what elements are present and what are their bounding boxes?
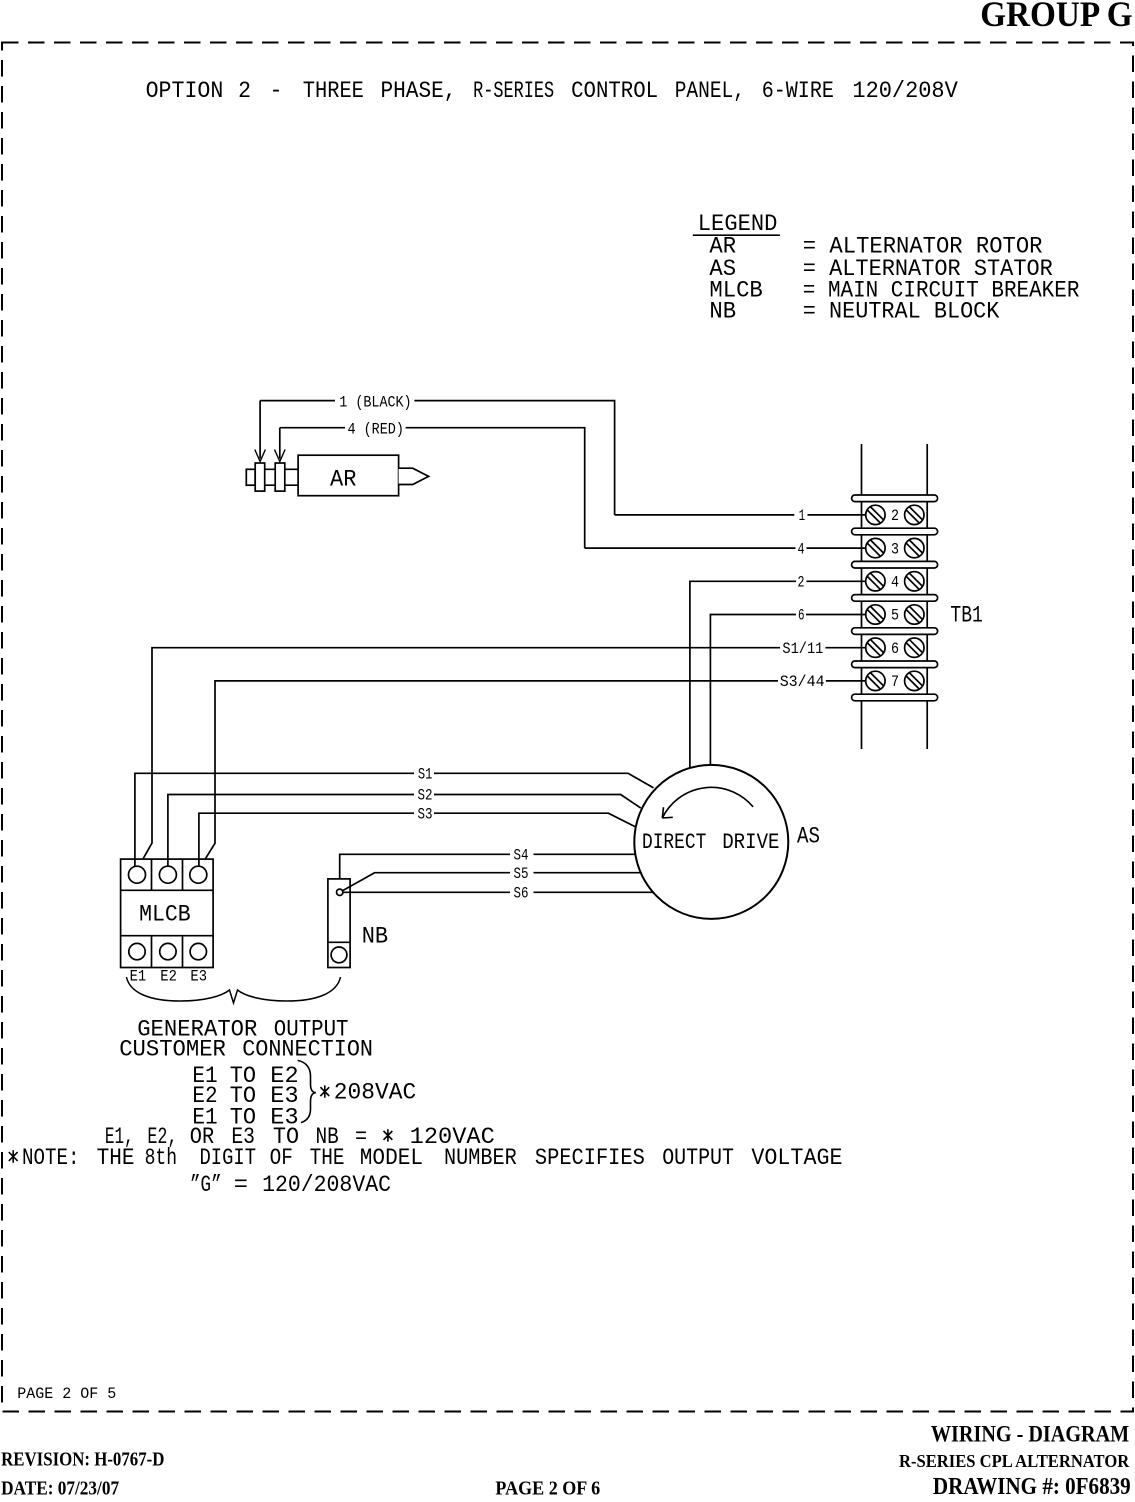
svg-text:CONNECTION: CONNECTION [242, 1036, 373, 1062]
svg-text:5: 5 [891, 607, 899, 625]
MLCB line terminal 3 [190, 866, 207, 883]
svg-text:S3/44: S3/44 [780, 673, 825, 691]
NB node terminal [337, 889, 343, 895]
svg-text:6: 6 [798, 607, 805, 625]
svg-text:120/208VAC: 120/208VAC [262, 1172, 391, 1198]
TB1 terminal 4 left screw [866, 572, 885, 591]
svg-text:4 (RED): 4 (RED) [348, 420, 404, 438]
NB body box [328, 879, 350, 968]
TB1 separator bar 6 [852, 661, 938, 668]
wire 6: TB1 terminal 5 to stator [710, 607, 865, 765]
svg-text:OF: OF [270, 1145, 293, 1171]
brace 208VAC [298, 1060, 417, 1122]
svg-text:DRIVE: DRIVE [722, 829, 779, 855]
AR shaft to body [285, 469, 298, 485]
svg-text:THREE: THREE [303, 78, 364, 104]
TB1 terminal 2 left screw [866, 505, 885, 524]
svg-text:8th: 8th [145, 1145, 177, 1171]
svg-text:S5: S5 [514, 865, 529, 883]
svg-text:4: 4 [891, 574, 899, 592]
wire S1/11: TB1 terminal 6 to MLCB terminal 1 [139, 640, 866, 867]
svg-text:6: 6 [891, 640, 899, 658]
svg-text:= NEUTRAL BLOCK: = NEUTRAL BLOCK [803, 299, 1000, 325]
svg-text:OUTPUT: OUTPUT [662, 1145, 734, 1171]
svg-text:MODEL: MODEL [360, 1145, 423, 1171]
svg-text:PAGE 2 OF 5: PAGE 2 OF 5 [17, 1385, 116, 1403]
svg-text:DIRECT: DIRECT [642, 829, 706, 855]
AR slip ring 1 [255, 463, 265, 491]
svg-text:E3: E3 [190, 968, 207, 986]
svg-text:PAGE 2 OF 6: PAGE 2 OF 6 [495, 1478, 600, 1497]
MLCB row dividers [121, 890, 214, 935]
footer titles [1, 1421, 1131, 1500]
wire S4: NB to stator [340, 847, 636, 879]
wire 2: TB1 terminal 4 to stator [690, 574, 866, 768]
TB1 separator bar 4 [852, 595, 938, 602]
svg-text:GROUP G: GROUP G [980, 0, 1132, 34]
arrowhead at ring 1 [255, 450, 266, 462]
svg-text:=: = [234, 1172, 248, 1198]
connection table E1/E2/E3 [192, 1063, 298, 1131]
wire 1 drop to ring 1 [259, 401, 261, 459]
AR body [298, 455, 399, 496]
TB1 terminal 3 right screw [905, 538, 924, 557]
svg-text:WIRING - DIAGRAM: WIRING - DIAGRAM [931, 1421, 1130, 1446]
generator output label [119, 1017, 373, 1063]
AR slip ring 2 [275, 463, 285, 491]
svg-text:TB1: TB1 [950, 602, 982, 628]
svg-text:NB: NB [362, 923, 388, 949]
wire S1: MLCB terminal 1 to stator [135, 765, 654, 866]
TB1 separator bar 5 [852, 628, 938, 635]
brace: generator output customer connection [126, 977, 340, 1003]
MLCB line terminal 2 [159, 866, 176, 883]
svg-text:1 (BLACK): 1 (BLACK) [339, 393, 411, 411]
TB1 terminal 5 left screw [866, 605, 885, 624]
MLCB line terminal 1 [129, 866, 146, 883]
legend [693, 211, 1080, 325]
TB1 separator bar 2 [852, 528, 938, 535]
AS stator circle [634, 765, 788, 919]
svg-text:CONTROL: CONTROL [571, 78, 658, 104]
MLCB pole dividers [152, 859, 183, 967]
svg-text:AS: AS [797, 824, 820, 850]
alternator stator AS: DIRECT DRIVE [634, 765, 820, 919]
note line 120VAC [105, 1124, 495, 1150]
NB lower terminal [331, 947, 347, 963]
TB1 terminal 3 left screw [866, 538, 885, 557]
wire segment 4 to TB1 [585, 547, 866, 549]
svg-text:1: 1 [799, 507, 806, 525]
svg-text:DRAWING #: 0F6839: DRAWING #: 0F6839 [933, 1474, 1131, 1497]
svg-text:PHASE,: PHASE, [381, 78, 457, 104]
svg-text:7: 7 [891, 673, 899, 691]
svg-text:REVISION: H-0767-D: REVISION: H-0767-D [1, 1448, 164, 1470]
wire S5: NB node to stator [342, 865, 640, 891]
wire S3: MLCB terminal 3 to stator [199, 805, 635, 866]
TB1 separator bar 3 [852, 561, 938, 568]
TB1 separator bar 1 [852, 495, 938, 502]
svg-text:S6: S6 [514, 885, 529, 903]
svg-text:DIGIT: DIGIT [200, 1145, 257, 1171]
svg-text:S3: S3 [418, 805, 433, 823]
svg-text:DATE: 07/23/07: DATE: 07/23/07 [1, 1478, 119, 1497]
wire segment 1 to TB1 [615, 514, 866, 516]
svg-text:208VAC: 208VAC [334, 1080, 416, 1106]
svg-text:4: 4 [798, 540, 805, 558]
svg-text:-: - [270, 78, 283, 104]
rotation arrowhead [662, 807, 673, 818]
wire S6: NB node to stator [343, 885, 653, 903]
svg-text:2: 2 [798, 574, 805, 592]
svg-text:NB: NB [709, 299, 736, 325]
svg-text:120/208V: 120/208V [852, 78, 957, 104]
TB1 terminal 2 right screw [905, 505, 924, 524]
note: model number output voltage [9, 1145, 843, 1171]
svg-text:E2: E2 [160, 968, 177, 986]
MLCB terminals [129, 866, 207, 960]
terminal block TB1 [852, 444, 983, 749]
rotation arc [662, 787, 753, 818]
svg-text:THE: THE [97, 1145, 135, 1171]
svg-text:R-SERIES: R-SERIES [473, 78, 554, 104]
svg-text:PANEL,: PANEL, [675, 78, 745, 104]
TB1 terminal 6 right screw [905, 638, 924, 657]
AR shaft end stub [246, 469, 255, 485]
title text [146, 78, 958, 104]
wire S2: MLCB terminal 2 to stator [168, 787, 641, 867]
TB1 side rails [862, 444, 928, 749]
neutral block NB [328, 879, 388, 968]
MLCB load terminal E3 [190, 943, 206, 959]
svg-text:SPECIFIES: SPECIFIES [535, 1145, 645, 1171]
svg-text:NOTE:: NOTE: [22, 1145, 80, 1171]
svg-text:R-SERIES CPL ALTERNATOR: R-SERIES CPL ALTERNATOR [899, 1451, 1130, 1471]
svg-text:MLCB: MLCB [139, 901, 191, 927]
svg-text:S4: S4 [514, 847, 529, 865]
svg-text:”G”: ”G” [190, 1172, 222, 1198]
MLCB load terminal E2 [160, 943, 176, 959]
AR shaft between rings [265, 469, 276, 485]
wire segment 4 upper run [280, 428, 585, 548]
MLCB load terminal E1 [129, 943, 145, 959]
NB divider [328, 941, 350, 943]
note: G voltage code [190, 1172, 391, 1198]
svg-text:E1: E1 [130, 968, 147, 986]
svg-text:VOLTAGE: VOLTAGE [751, 1145, 842, 1171]
TB1 terminal 7 left screw [866, 671, 885, 690]
svg-text:6-WIRE: 6-WIRE [762, 78, 834, 104]
AR drive tip [399, 468, 429, 484]
svg-text:S2: S2 [418, 787, 433, 805]
svg-text:NUMBER: NUMBER [444, 1145, 517, 1171]
wire segment 1 upper run [260, 401, 614, 515]
svg-text:CUSTOMER: CUSTOMER [119, 1036, 226, 1062]
svg-text:3: 3 [891, 540, 899, 558]
TB1 terminal 6 left screw [866, 638, 885, 657]
wire 1 (BLACK): rotor ring 1 to TB1 terminal 2 [255, 393, 866, 525]
wire S3/44: TB1 terminal 7 to MLCB terminal 3 [201, 673, 866, 866]
svg-text:AR: AR [330, 467, 356, 493]
svg-text:2: 2 [238, 78, 251, 104]
svg-text:S1: S1 [418, 765, 433, 783]
svg-text:OPTION: OPTION [146, 78, 224, 104]
main circuit breaker MLCB [121, 859, 214, 986]
TB1 terminal 5 right screw [905, 605, 924, 624]
alternator rotor AR [246, 455, 428, 496]
TB1 terminal 7 right screw [905, 671, 924, 690]
svg-text:THE: THE [310, 1145, 345, 1171]
arrowhead at ring 2 [275, 450, 286, 462]
wire 4 drop to ring 2 [279, 428, 281, 459]
MLCB body box [121, 859, 214, 967]
TB1 separator bar 7 [852, 694, 938, 701]
svg-text:S1/11: S1/11 [782, 640, 823, 658]
TB1 terminal 4 right screw [905, 572, 924, 591]
svg-text:2: 2 [891, 507, 899, 525]
wire 4 (RED): rotor ring 2 to TB1 terminal 3 [275, 420, 866, 558]
